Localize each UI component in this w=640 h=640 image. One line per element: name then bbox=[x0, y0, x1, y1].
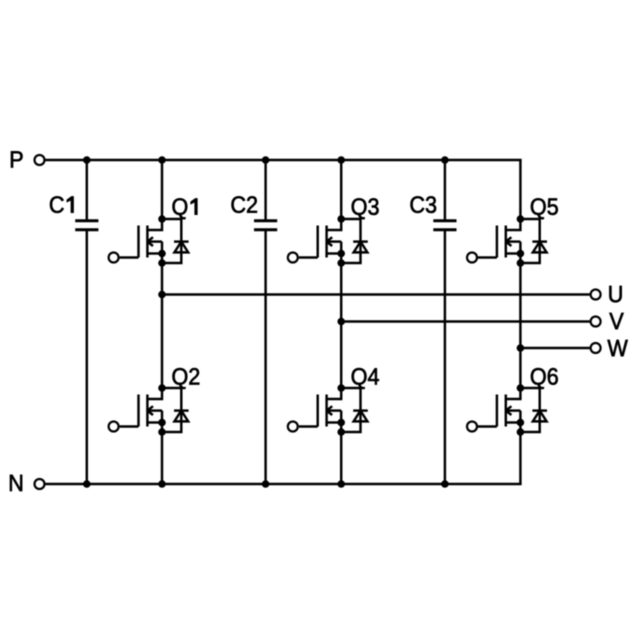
label N bbox=[10, 475, 22, 491]
wire output W bbox=[520, 347, 589, 349]
terminal U bbox=[591, 290, 601, 300]
wire leg 1 midpoint (Q1 source to Q2 drain) bbox=[161, 263, 163, 388]
wire leg 3 drain (top rail to Q5) bbox=[519, 160, 521, 219]
wire leg 1 drain (top rail to Q1) bbox=[161, 160, 163, 219]
label Q1 bbox=[173, 198, 198, 219]
node bottom rail / C1 bbox=[83, 480, 91, 488]
node bottom rail / C2 bbox=[262, 480, 270, 488]
terminal P bbox=[35, 155, 45, 165]
wire leg 2 drain (top rail to Q3) bbox=[340, 160, 342, 219]
wire C1 bottom lead bbox=[86, 231, 88, 484]
node top rail / Q1 drain bbox=[158, 156, 166, 164]
label Q5 bbox=[531, 198, 558, 219]
wire top rail P bus bbox=[46, 159, 522, 161]
wire leg 1 source (Q2 to bottom rail) bbox=[161, 432, 163, 484]
label C2 bbox=[231, 196, 256, 213]
transistor Q1 (N-MOSFET with body diode) bbox=[109, 215, 189, 267]
wire leg 2 midpoint (Q3 source to Q4 drain) bbox=[340, 263, 342, 388]
capacitor C3 bbox=[433, 221, 456, 230]
label Q4 bbox=[352, 368, 379, 389]
wire leg 2 source (Q4 to bottom rail) bbox=[340, 432, 342, 484]
wire bottom rail N bus bbox=[46, 483, 522, 485]
wire leg 3 source (Q6 to bottom rail) bbox=[519, 432, 521, 484]
wire output V bbox=[341, 320, 589, 322]
label C3 bbox=[410, 196, 436, 213]
capacitor C1 bbox=[75, 221, 98, 230]
terminal W bbox=[591, 343, 601, 353]
wire C2 top lead bbox=[264, 160, 266, 219]
transistor Q6 (N-MOSFET with body diode) bbox=[467, 384, 547, 436]
transistor Q4 (N-MOSFET with body diode) bbox=[288, 384, 368, 436]
label P bbox=[11, 151, 23, 167]
node bottom rail / C3 bbox=[441, 480, 449, 488]
capacitor C2 bbox=[254, 221, 277, 230]
label Q2 bbox=[173, 368, 200, 389]
wire C3 top lead bbox=[444, 160, 446, 219]
transistor Q2 (N-MOSFET with body diode) bbox=[109, 384, 189, 436]
wire C3 bottom lead bbox=[444, 231, 446, 484]
wire C2 bottom lead bbox=[264, 231, 266, 484]
transistor Q5 (N-MOSFET with body diode) bbox=[467, 215, 547, 267]
label Q3 bbox=[352, 198, 379, 219]
node top rail / C3 bbox=[441, 156, 449, 164]
node leg / output U bbox=[158, 291, 166, 299]
label Q6 bbox=[531, 368, 558, 389]
node leg / output V bbox=[337, 318, 345, 326]
label U bbox=[609, 286, 621, 302]
node bottom rail / Q4 source bbox=[337, 480, 345, 488]
wire C1 top lead bbox=[86, 160, 88, 219]
label V bbox=[609, 313, 623, 329]
terminal V bbox=[591, 317, 601, 327]
node top rail / C1 bbox=[83, 156, 91, 164]
node leg / output W bbox=[517, 344, 525, 352]
wire leg 3 midpoint (Q5 source to Q6 drain) bbox=[519, 263, 521, 388]
node top rail / Q3 drain bbox=[337, 156, 345, 164]
transistor Q3 (N-MOSFET with body diode) bbox=[288, 215, 368, 267]
terminal N bbox=[35, 479, 45, 489]
wire output U bbox=[162, 293, 590, 295]
label W bbox=[607, 340, 627, 356]
label C1 bbox=[50, 196, 74, 213]
node bottom rail / Q2 source bbox=[158, 480, 166, 488]
node top rail / C2 bbox=[262, 156, 270, 164]
